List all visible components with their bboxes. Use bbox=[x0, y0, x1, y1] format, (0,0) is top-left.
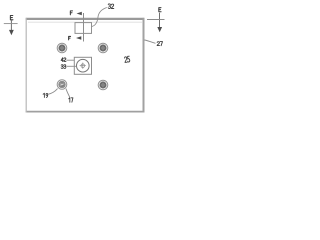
bolt hole top-right bbox=[98, 43, 108, 53]
leader 33 bbox=[66, 65, 76, 67]
center boss square bbox=[74, 57, 91, 74]
section line F (vertical) bbox=[83, 13, 85, 42]
plate body outline bbox=[26, 18, 145, 113]
label 32 bbox=[108, 4, 114, 9]
center boss crosshair bbox=[80, 63, 86, 69]
label 25 bbox=[124, 56, 130, 62]
section marker E (right) bbox=[159, 8, 161, 12]
center boss circle bbox=[77, 59, 90, 72]
label 33 bbox=[61, 65, 66, 69]
E left line + arrow bbox=[10, 20, 12, 31]
label 27 bbox=[157, 42, 162, 46]
E left dash bbox=[4, 23, 18, 25]
leader 42 bbox=[66, 59, 74, 61]
label F (upper) bbox=[70, 11, 72, 15]
label 17 bbox=[69, 98, 73, 103]
leader 27 bbox=[144, 40, 155, 43]
leader 17 bbox=[66, 89, 70, 98]
label 19 bbox=[43, 93, 48, 97]
leader 32 bbox=[92, 8, 107, 27]
bolt hole top-left bbox=[57, 43, 67, 53]
E right line + arrow bbox=[159, 13, 161, 28]
tab box 32 bbox=[75, 23, 92, 34]
leader 19 bbox=[48, 89, 58, 95]
bolt hole bottom-right bbox=[98, 80, 108, 90]
E right dash bbox=[147, 19, 165, 21]
section marker E (left) bbox=[10, 15, 13, 19]
arrow F lower bbox=[76, 36, 81, 40]
label F (lower) bbox=[69, 36, 71, 39]
bolt hole bottom-left bbox=[57, 80, 67, 90]
arrow F upper bbox=[77, 12, 82, 16]
label 42 bbox=[61, 58, 66, 62]
